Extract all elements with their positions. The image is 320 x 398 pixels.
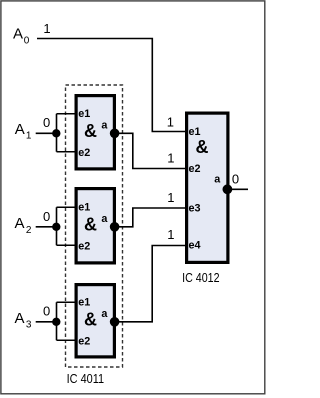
svg-text:e4: e4 (189, 239, 201, 251)
wire A3 branch to e1/e2 of gate U1C (57, 302, 77, 340)
svg-text:IC 4012: IC 4012 (182, 270, 220, 285)
input label A3 (15, 310, 32, 331)
svg-text:0: 0 (43, 303, 50, 318)
svg-text:&: & (84, 121, 97, 141)
4-input NAND gate IC 4012 (187, 113, 228, 262)
NAND gate U1C (IC 4011) (76, 285, 114, 357)
value 0 on A3 net (43, 303, 50, 318)
junction A1 (52, 129, 60, 137)
output junction U1C (110, 317, 120, 327)
value 0 on A1 net (43, 115, 50, 130)
input label A2 (15, 215, 32, 236)
junction A2 (52, 223, 60, 231)
wire U1A output to IC4012 pin e2 (115, 133, 186, 168)
svg-text:2: 2 (26, 225, 32, 236)
svg-text:a: a (101, 308, 108, 320)
svg-text:e2: e2 (189, 163, 201, 175)
input label A0 (13, 26, 30, 47)
wire A1 input (36, 132, 57, 134)
value 1 at IC4012 pin e1 (167, 115, 174, 130)
svg-text:1: 1 (26, 130, 32, 141)
svg-text:1: 1 (167, 190, 174, 205)
wire A2 branch to e1/e2 of gate U1B (57, 207, 77, 245)
value 1 on A0 net (43, 21, 50, 36)
label IC 4012 (182, 270, 220, 285)
wire U1C output to IC4012 pin e4 (115, 246, 186, 322)
label IC 4011 (67, 371, 105, 386)
svg-text:e3: e3 (189, 202, 201, 214)
value 1 at IC4012 pin e4 (167, 227, 174, 242)
svg-text:A: A (13, 26, 23, 43)
svg-text:e1: e1 (78, 297, 90, 309)
svg-text:3: 3 (26, 320, 32, 331)
svg-text:0: 0 (43, 209, 50, 224)
svg-text:&: & (84, 310, 97, 330)
svg-text:A: A (15, 121, 25, 138)
input label A1 (15, 121, 32, 142)
svg-text:IC 4011: IC 4011 (67, 371, 105, 386)
IC 4011 dashed package outline (66, 85, 123, 367)
svg-text:e2: e2 (78, 335, 90, 347)
value 0 on A2 net (43, 209, 50, 224)
svg-text:A: A (15, 215, 25, 232)
wire A0 to IC4012 pin e1 (37, 39, 186, 132)
output junction U1A (110, 129, 120, 139)
svg-text:a: a (214, 174, 221, 186)
svg-text:a: a (101, 120, 108, 132)
wire A1 branch to e1/e2 of gate U1A (57, 114, 77, 152)
svg-text:0: 0 (43, 115, 50, 130)
value 0 on output net (232, 172, 239, 187)
NAND gate U1A (IC 4011) (76, 96, 114, 169)
svg-text:e1: e1 (78, 202, 90, 214)
wire U1B output to IC4012 pin e3 (115, 208, 186, 227)
svg-text:0: 0 (232, 172, 239, 187)
wire A2 input (36, 226, 57, 228)
wire IC 4012 output (227, 188, 248, 190)
svg-text:A: A (15, 310, 25, 327)
output junction U1B (110, 222, 120, 232)
svg-text:1: 1 (167, 227, 174, 242)
svg-text:&: & (84, 215, 97, 235)
value 1 at IC4012 pin e2 (167, 151, 174, 166)
NAND gate U1B (IC 4011) (76, 189, 114, 263)
svg-text:e2: e2 (78, 240, 90, 252)
output junction / bubble of IC 4012 (223, 184, 233, 194)
value 1 at IC4012 pin e3 (167, 190, 174, 205)
svg-text:0: 0 (24, 35, 30, 46)
junction A3 (52, 318, 60, 326)
svg-text:&: & (196, 137, 209, 157)
svg-text:e1: e1 (78, 108, 90, 120)
svg-text:1: 1 (167, 115, 174, 130)
wire A3 input (36, 321, 57, 323)
svg-text:e2: e2 (78, 147, 90, 159)
svg-text:1: 1 (167, 151, 174, 166)
svg-text:a: a (101, 213, 108, 225)
svg-text:1: 1 (43, 21, 50, 36)
